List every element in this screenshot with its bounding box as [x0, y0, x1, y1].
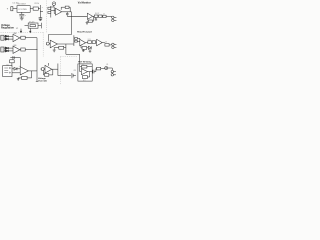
wire U3 output [93, 15, 95, 17]
wire reference to monitor [67, 15, 87, 17]
wire IC1 ground pin [21, 12, 23, 14]
wire reference to divider [53, 5, 55, 7]
test point TP1 circle [105, 67, 108, 70]
node bus bottom tick [36, 80, 38, 82]
wire U2 feedback [54, 12, 55, 14]
op-amp U9 [20, 67, 28, 75]
relay K1 box [3, 66, 12, 77]
wire diodes to U4 [9, 35, 13, 37]
capacitor C4 [39, 17, 43, 19]
connector J4 pin 1 [112, 43, 114, 45]
svg-text:Override: Override [38, 81, 48, 83]
ground R16 [82, 49, 84, 50]
resistor R21 [97, 67, 101, 70]
wire U11 output [88, 71, 93, 73]
connector J1 pin 1 [112, 16, 114, 18]
wire loop top [48, 34, 71, 36]
wire IC1 output [30, 8, 33, 10]
wire C1 to IC1 input [13, 8, 17, 10]
wire R15 to connector J4 [109, 44, 112, 46]
diode D3 [5, 38, 8, 40]
svg-text:IC1 LM317: IC1 LM317 [18, 3, 26, 5]
svg-text:POT HV Delay: POT HV Delay [78, 62, 92, 64]
connector J2 [1, 35, 4, 40]
resistor R7 [99, 15, 102, 17]
connector J5 pin 1 [111, 70, 113, 72]
ground D6 [89, 49, 91, 51]
node monitor feed [70, 12, 72, 35]
wire R7 to R8 [101, 15, 104, 17]
ground below C4 [39, 18, 41, 21]
resistor R5 feedback [65, 6, 69, 8]
svg-text:Voltage: Voltage [38, 77, 47, 80]
converter module box [28, 23, 38, 28]
ground U6 [53, 48, 55, 50]
resistor R18 feedback [44, 74, 48, 77]
resistor R14 [92, 41, 95, 44]
node read input rail [73, 35, 75, 46]
dashed divider vertical middle [42, 32, 44, 57]
wire U10 output step [52, 68, 58, 70]
wire TP to connector [108, 67, 113, 69]
resistor R10 [21, 36, 25, 39]
relay coil lines [4, 67, 10, 73]
svg-text:J4: J4 [105, 41, 107, 43]
resistor R20 [82, 76, 87, 79]
wire R14 to U8 [96, 41, 97, 43]
wire U6 output drop [65, 44, 67, 54]
ground R17 [18, 77, 21, 79]
svg-text:J5: J5 [106, 64, 108, 66]
capacitor C9 [92, 70, 94, 74]
dashed divider vertical top [46, 1, 48, 33]
SECTION_DIVIDERS [1, 1, 78, 86]
diode D5 [5, 50, 8, 52]
op-amp U7 [80, 39, 86, 45]
capacitor C5 coupling [66, 13, 69, 15]
op-amp U10 [45, 65, 52, 73]
svg-text:J1: J1 [103, 14, 105, 16]
resistor R19 [82, 65, 87, 68]
wire U10 top stub [48, 63, 50, 66]
ground below C2 [20, 17, 24, 19]
op-amp U4 [13, 34, 20, 41]
node output bus [36, 38, 38, 71]
input circle X1 [46, 42, 49, 45]
node +V rail [39, 5, 41, 15]
svg-text:R1 1k: R1 1k [35, 3, 40, 5]
wire U7 to R13 [86, 42, 88, 44]
dashed divider horizontal left [1, 31, 44, 33]
dashed divider vertical bottom [59, 57, 61, 85]
wire module input [25, 25, 29, 27]
wire R18 loop [49, 74, 53, 76]
wire supply to U9 input [20, 58, 22, 68]
diode D2 [5, 35, 8, 37]
connector J4 pin 2 [112, 46, 114, 48]
ground U3 [86, 21, 88, 22]
wire to connector J1 [106, 15, 111, 17]
resistor R8 [103, 15, 106, 17]
wire D7 to U9 [17, 68, 20, 70]
wire U8 to R15 [102, 42, 105, 44]
wire R10 to bus [25, 37, 37, 39]
svg-text:C8: C8 [74, 70, 76, 72]
input circle X2 [41, 68, 44, 71]
resistor R12 feedback [59, 46, 64, 49]
connector J3 [1, 47, 4, 52]
wire U2 output [62, 11, 72, 13]
wire K1 lower pin [12, 72, 20, 74]
connector J1 pin 2 [112, 19, 114, 21]
diode D7 [14, 67, 17, 70]
voltage regulator IC1 [17, 6, 30, 13]
op-amp U5 [13, 46, 20, 53]
wire block left rail [79, 64, 81, 71]
wire to POT block [66, 53, 80, 55]
capacitor C8 [71, 73, 73, 78]
wire K1 to D7 [12, 68, 14, 70]
capacitor C6 [95, 17, 97, 19]
dashed divider horizontal bottom-middle [60, 56, 77, 58]
resistor R2 inside module [30, 25, 35, 27]
wire supply top [10, 57, 20, 59]
wire diodes to U5 [9, 47, 13, 49]
wire arrow feed A [20, 29, 22, 33]
node divider rail [50, 6, 52, 18]
svg-text:Vx Monitor: Vx Monitor [78, 1, 91, 4]
wire U6 output [57, 43, 74, 45]
diode D6 [88, 46, 91, 49]
wire module output [91, 71, 94, 73]
delay module box [78, 64, 92, 81]
svg-text:Read Forward: Read Forward [77, 31, 92, 33]
wire arrow feed B [29, 29, 31, 33]
capacitor C3 tick [40, 11, 43, 13]
wire loop left [47, 35, 49, 42]
resistor R23 [75, 41, 78, 43]
wire U9 output to bus [28, 70, 37, 72]
node module out [40, 23, 42, 29]
resistor R15 [105, 44, 109, 47]
wire U4 output [20, 37, 21, 39]
resistor R6 [94, 15, 98, 17]
svg-text:IC1 7805: IC1 7805 [19, 9, 28, 11]
resistor R4 [48, 11, 51, 13]
op-amp U11 [81, 69, 87, 75]
op-amp U8 [97, 39, 103, 46]
svg-text:Regulation: Regulation [1, 27, 14, 30]
resistor R1 [33, 7, 38, 10]
connector J5 pin 2 [111, 74, 113, 76]
capacitor C2 polarized [19, 13, 24, 15]
resistor R3 [48, 7, 51, 9]
wire R11 to bus [25, 49, 37, 51]
capacitor C7 box [10, 60, 15, 63]
capacitor C7 tick [12, 56, 14, 59]
wire divider to op-amp [51, 9, 56, 11]
resistor R9 feedback [88, 20, 92, 22]
op-amp U3 [87, 13, 92, 19]
resistor R16 [82, 47, 87, 50]
resistor R17 feedback [22, 76, 28, 79]
svg-text:1/1: 1/1 [16, 28, 18, 30]
svg-text:R27: R27 [83, 80, 86, 82]
wire to R21 [95, 69, 97, 72]
capacitor C1 [11, 7, 13, 11]
wire U5 output [20, 49, 21, 51]
op-amp U6 [50, 40, 57, 48]
wire module output [38, 25, 41, 27]
wire R1 to +V rail [38, 8, 40, 10]
resistor R13 [88, 41, 92, 44]
svg-text:R6 R7: R6 R7 [95, 13, 99, 15]
wire R21 to TP [101, 68, 105, 70]
resistor R11 [21, 48, 25, 51]
voltage reference D1 circle [52, 2, 55, 5]
diode D4 [5, 47, 8, 49]
op-amp U2 [55, 8, 61, 15]
resistor R22 [75, 38, 78, 40]
